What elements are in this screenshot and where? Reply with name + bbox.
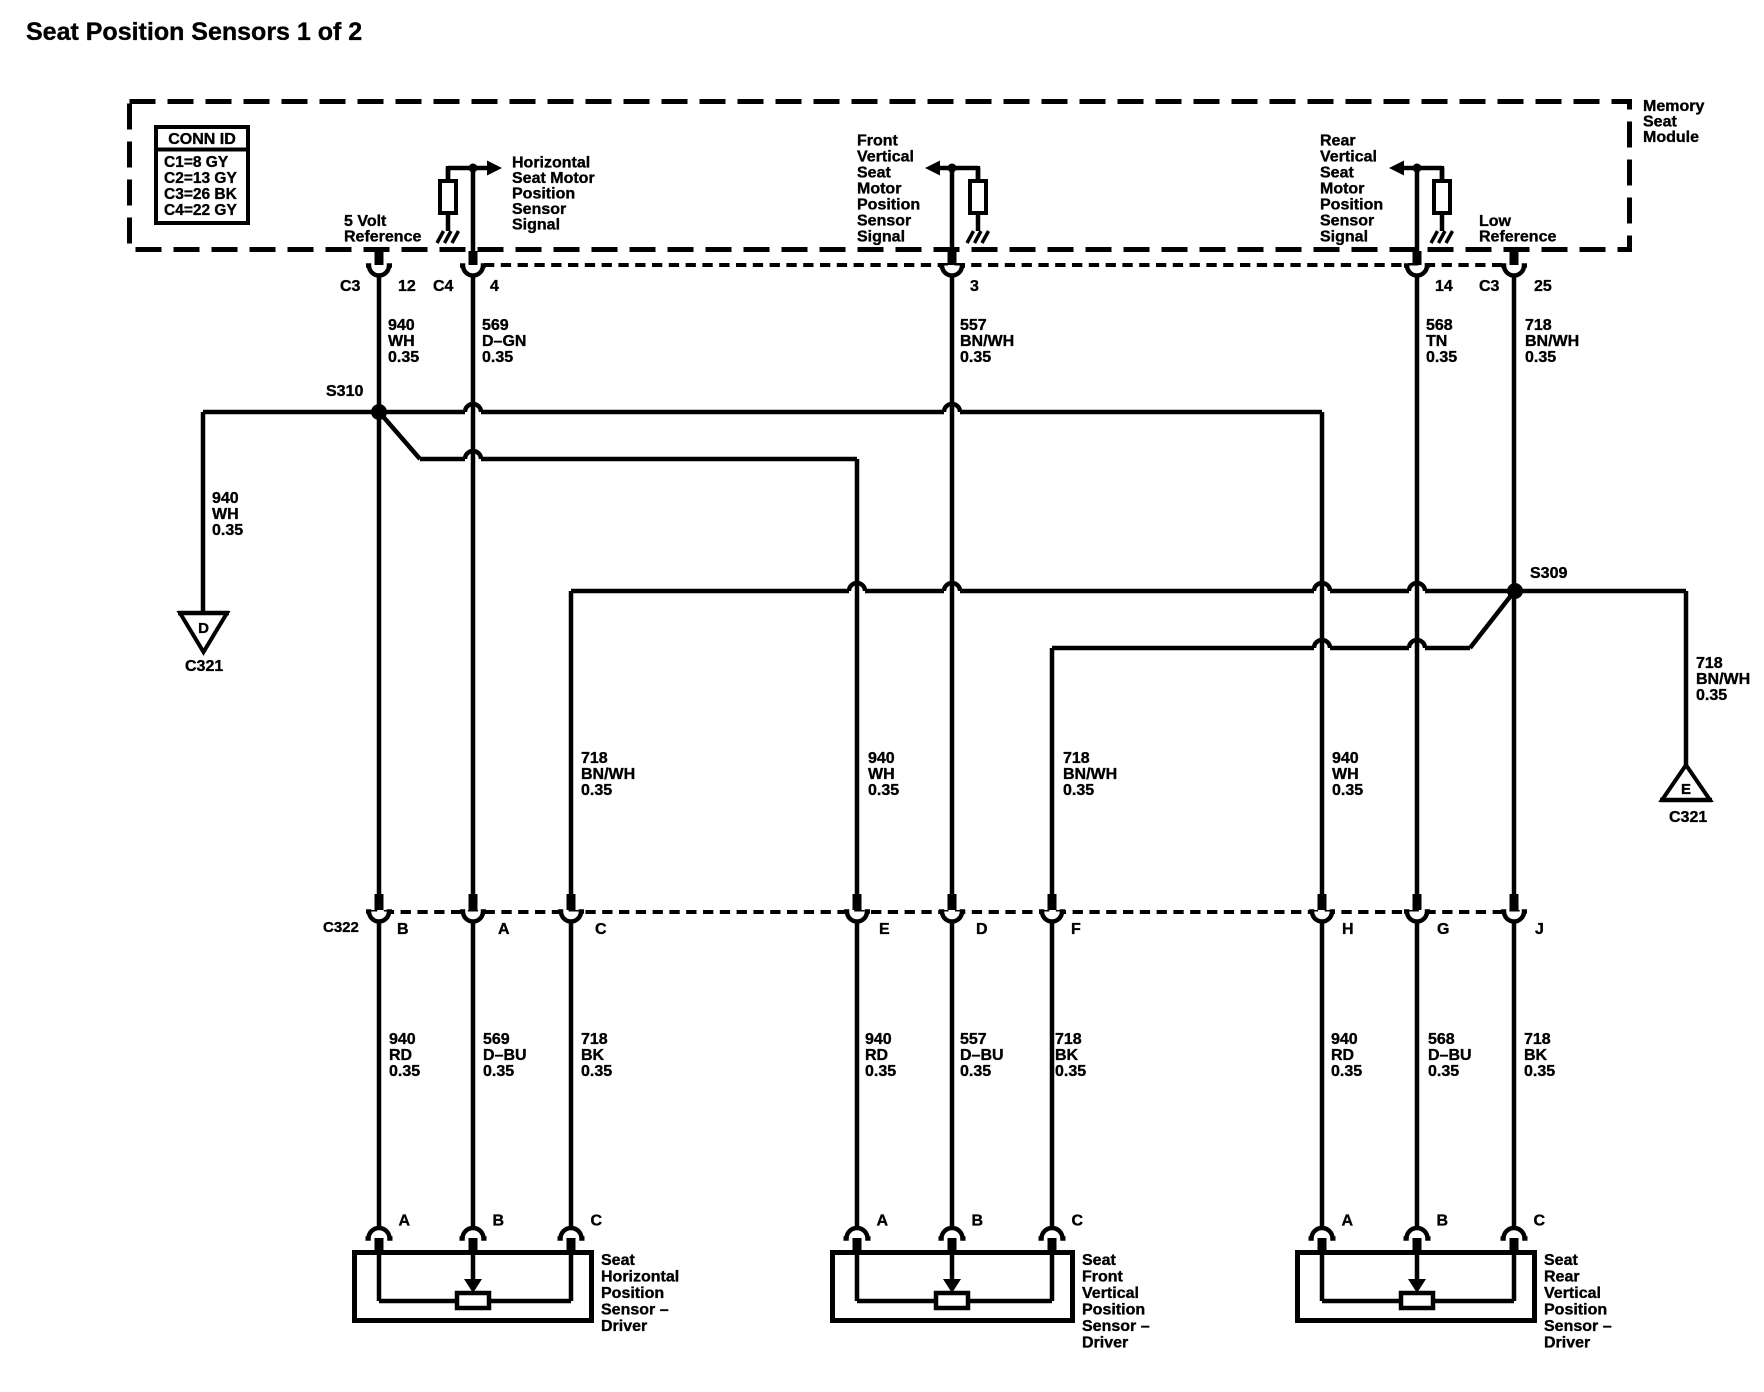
svg-text:Seat: Seat [601, 1252, 635, 1269]
svg-text:A: A [877, 1213, 889, 1230]
svg-text:0.35: 0.35 [1525, 349, 1556, 366]
svg-text:Seat: Seat [857, 165, 891, 182]
svg-text:Position: Position [601, 1285, 664, 1302]
svg-text:BK: BK [581, 1047, 605, 1064]
svg-text:940: 940 [865, 1031, 892, 1048]
svg-text:569: 569 [482, 317, 509, 334]
svg-text:0.35: 0.35 [1331, 1063, 1362, 1080]
svg-text:0.35: 0.35 [868, 782, 899, 799]
svg-text:Position: Position [1320, 197, 1383, 214]
svg-text:Driver: Driver [1544, 1335, 1590, 1352]
svg-text:BN/WH: BN/WH [960, 333, 1014, 350]
svg-text:557: 557 [960, 317, 987, 334]
svg-text:B: B [972, 1213, 984, 1230]
svg-text:Signal: Signal [512, 217, 560, 234]
svg-text:0.35: 0.35 [581, 782, 612, 799]
svg-text:0.35: 0.35 [960, 349, 991, 366]
svg-text:Vertical: Vertical [1082, 1285, 1139, 1302]
svg-text:557: 557 [960, 1031, 987, 1048]
svg-text:S310: S310 [326, 383, 363, 400]
svg-text:C1=8 GY: C1=8 GY [164, 154, 229, 171]
svg-text:C3: C3 [340, 278, 361, 295]
svg-text:J: J [1535, 921, 1544, 938]
svg-text:RD: RD [1331, 1047, 1354, 1064]
svg-text:E: E [879, 921, 890, 938]
svg-text:Position: Position [512, 186, 575, 203]
svg-text:0.35: 0.35 [865, 1063, 896, 1080]
svg-text:B: B [397, 921, 409, 938]
svg-text:Seat: Seat [1320, 165, 1354, 182]
svg-text:D: D [198, 620, 209, 637]
svg-text:Sensor: Sensor [1320, 213, 1374, 230]
svg-text:718: 718 [1063, 750, 1090, 767]
svg-text:D: D [976, 921, 988, 938]
svg-text:C321: C321 [1669, 809, 1707, 826]
svg-text:0.35: 0.35 [482, 349, 513, 366]
svg-text:BK: BK [1524, 1047, 1548, 1064]
svg-text:Motor: Motor [1320, 181, 1364, 198]
svg-text:0.35: 0.35 [212, 522, 243, 539]
svg-text:Sensor –: Sensor – [1082, 1318, 1150, 1335]
svg-text:718: 718 [1524, 1031, 1551, 1048]
svg-text:Low: Low [1479, 213, 1512, 230]
svg-text:Module: Module [1643, 129, 1699, 146]
svg-text:Vertical: Vertical [1544, 1285, 1601, 1302]
svg-text:5 Volt: 5 Volt [344, 213, 387, 230]
svg-text:WH: WH [1332, 766, 1359, 783]
svg-text:0.35: 0.35 [1426, 349, 1457, 366]
svg-text:D–GN: D–GN [482, 333, 526, 350]
svg-text:B: B [1437, 1213, 1449, 1230]
svg-text:718: 718 [1525, 317, 1552, 334]
svg-text:Sensor: Sensor [512, 201, 566, 218]
svg-text:C322: C322 [323, 919, 359, 936]
svg-text:0.35: 0.35 [388, 349, 419, 366]
svg-text:BK: BK [1055, 1047, 1079, 1064]
svg-text:Sensor –: Sensor – [1544, 1318, 1612, 1335]
svg-text:940: 940 [1331, 1031, 1358, 1048]
svg-text:718: 718 [1696, 655, 1723, 672]
svg-text:Reference: Reference [344, 229, 421, 246]
svg-text:Seat Position Sensors 1 of 2: Seat Position Sensors 1 of 2 [26, 18, 362, 46]
svg-text:TN: TN [1426, 333, 1447, 350]
svg-text:Seat Motor: Seat Motor [512, 170, 595, 187]
svg-text:Vertical: Vertical [1320, 149, 1377, 166]
svg-text:A: A [1342, 1213, 1354, 1230]
svg-text:0.35: 0.35 [1063, 782, 1094, 799]
svg-text:Motor: Motor [857, 181, 901, 198]
svg-text:Sensor –: Sensor – [601, 1302, 669, 1319]
svg-text:0.35: 0.35 [581, 1063, 612, 1080]
svg-text:Memory: Memory [1643, 98, 1704, 115]
svg-text:0.35: 0.35 [960, 1063, 991, 1080]
svg-text:C: C [1534, 1213, 1546, 1230]
svg-text:Position: Position [1082, 1302, 1145, 1319]
svg-text:Driver: Driver [601, 1318, 647, 1335]
svg-text:25: 25 [1534, 278, 1552, 295]
svg-text:C2=13 GY: C2=13 GY [164, 170, 237, 187]
svg-text:RD: RD [865, 1047, 888, 1064]
svg-text:4: 4 [490, 278, 499, 295]
svg-text:Seat: Seat [1643, 114, 1677, 131]
svg-text:D–BU: D–BU [1428, 1047, 1472, 1064]
svg-text:C321: C321 [185, 658, 223, 675]
svg-text:0.35: 0.35 [389, 1063, 420, 1080]
svg-text:C4: C4 [433, 278, 454, 295]
svg-text:Vertical: Vertical [857, 149, 914, 166]
svg-text:568: 568 [1428, 1031, 1455, 1048]
svg-text:Horizontal: Horizontal [512, 155, 590, 172]
svg-text:Rear: Rear [1320, 133, 1356, 150]
svg-text:940: 940 [388, 317, 415, 334]
svg-text:0.35: 0.35 [483, 1063, 514, 1080]
svg-text:0.35: 0.35 [1696, 687, 1727, 704]
svg-text:718: 718 [581, 1031, 608, 1048]
svg-text:568: 568 [1426, 317, 1453, 334]
svg-text:Signal: Signal [857, 229, 905, 246]
svg-text:Rear: Rear [1544, 1269, 1580, 1286]
svg-text:0.35: 0.35 [1428, 1063, 1459, 1080]
svg-text:Reference: Reference [1479, 229, 1556, 246]
svg-text:C: C [591, 1213, 603, 1230]
svg-text:Horizontal: Horizontal [601, 1269, 679, 1286]
svg-text:718: 718 [1055, 1031, 1082, 1048]
svg-text:C3=26 BK: C3=26 BK [164, 186, 238, 203]
svg-text:B: B [493, 1213, 505, 1230]
svg-text:BN/WH: BN/WH [1696, 671, 1750, 688]
svg-text:Seat: Seat [1544, 1252, 1578, 1269]
svg-text:WH: WH [868, 766, 895, 783]
svg-text:14: 14 [1435, 278, 1453, 295]
svg-text:Position: Position [857, 197, 920, 214]
svg-text:F: F [1071, 921, 1081, 938]
svg-text:BN/WH: BN/WH [581, 766, 635, 783]
svg-text:0.35: 0.35 [1055, 1063, 1086, 1080]
svg-text:0.35: 0.35 [1332, 782, 1363, 799]
svg-text:E: E [1681, 781, 1691, 798]
svg-text:718: 718 [581, 750, 608, 767]
svg-text:Sensor: Sensor [857, 213, 911, 230]
svg-text:569: 569 [483, 1031, 510, 1048]
svg-text:Position: Position [1544, 1302, 1607, 1319]
svg-text:RD: RD [389, 1047, 412, 1064]
svg-text:C3: C3 [1479, 278, 1500, 295]
svg-text:A: A [498, 921, 510, 938]
svg-text:Driver: Driver [1082, 1335, 1128, 1352]
svg-text:12: 12 [398, 278, 416, 295]
svg-text:C: C [1072, 1213, 1084, 1230]
svg-text:Front: Front [857, 133, 899, 150]
svg-text:Signal: Signal [1320, 229, 1368, 246]
svg-text:H: H [1342, 921, 1354, 938]
svg-text:CONN ID: CONN ID [168, 131, 236, 148]
svg-text:Front: Front [1082, 1269, 1124, 1286]
svg-text:D–BU: D–BU [960, 1047, 1004, 1064]
svg-text:WH: WH [388, 333, 415, 350]
svg-text:Seat: Seat [1082, 1252, 1116, 1269]
svg-text:940: 940 [1332, 750, 1359, 767]
svg-text:BN/WH: BN/WH [1525, 333, 1579, 350]
svg-text:BN/WH: BN/WH [1063, 766, 1117, 783]
svg-text:C: C [595, 921, 607, 938]
svg-text:S309: S309 [1530, 565, 1567, 582]
svg-text:940: 940 [868, 750, 895, 767]
svg-text:G: G [1437, 921, 1449, 938]
svg-text:940: 940 [389, 1031, 416, 1048]
svg-text:0.35: 0.35 [1524, 1063, 1555, 1080]
svg-text:D–BU: D–BU [483, 1047, 527, 1064]
svg-text:940: 940 [212, 490, 239, 507]
svg-text:WH: WH [212, 506, 239, 523]
svg-text:C4=22 GY: C4=22 GY [164, 202, 237, 219]
svg-text:A: A [399, 1213, 411, 1230]
svg-text:3: 3 [970, 278, 979, 295]
